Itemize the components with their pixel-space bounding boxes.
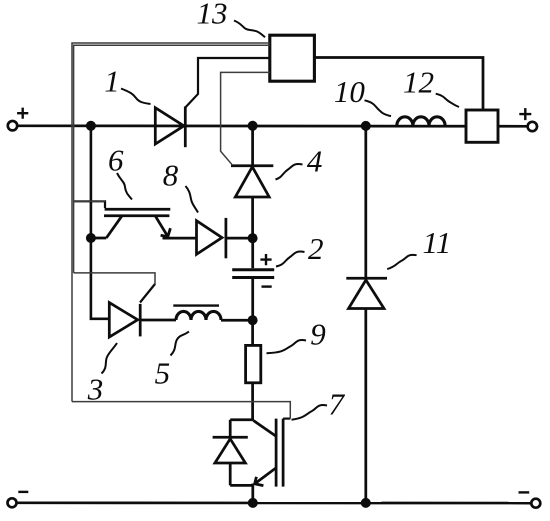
inductor 10 bbox=[397, 117, 445, 126]
block 12 bbox=[466, 110, 498, 142]
control wire to gate of thyristor 3 bbox=[74, 273, 155, 285]
control block 13 bbox=[270, 35, 315, 81]
IGBT 7 bbox=[253, 419, 290, 487]
wire node A to capacitor 2 bbox=[251, 238, 254, 268]
leader squiggle 13 bbox=[234, 21, 265, 38]
inductor 5 bbox=[173, 306, 221, 320]
terminal minus-left bbox=[8, 492, 29, 507]
leader squiggle 7 bbox=[292, 405, 328, 420]
wire thyristor 3 to inductor 5 bbox=[140, 319, 176, 322]
wire diode 11 branch vertical bottom bbox=[364, 309, 367, 503]
leader squiggle 6 bbox=[117, 173, 132, 200]
wire diode 11 branch vertical top bbox=[364, 126, 367, 278]
node bottom rail junction dot x366 bbox=[361, 498, 371, 508]
svg-text:8: 8 bbox=[163, 157, 179, 192]
leader squiggle 3 bbox=[102, 343, 118, 374]
wire diode 8 to node A bbox=[226, 237, 253, 240]
control wire from block 13 to gate of thyristor 4 bbox=[221, 72, 270, 165]
leader squiggle 8 bbox=[186, 186, 199, 213]
svg-text:6: 6 bbox=[108, 143, 124, 178]
wire diode of 7 to emitter node bbox=[230, 484, 253, 487]
node top rail junction dot x253 bbox=[248, 121, 258, 131]
node A junction dot bbox=[248, 233, 258, 243]
wire node B to resistor 9 bbox=[251, 320, 254, 345]
wire control block 13 to block 12 bbox=[314, 58, 483, 111]
wire resistor 9 to node C bbox=[251, 383, 254, 420]
IGBT 6 bbox=[74, 201, 171, 238]
svg-text:2: 2 bbox=[308, 231, 324, 266]
diode 11 bbox=[346, 278, 387, 308]
leader squiggle 9 bbox=[267, 340, 307, 353]
leader squiggle 11 bbox=[387, 255, 416, 269]
leader squiggle 5 bbox=[171, 332, 190, 356]
wire center vertical from top rail to thyristor 4 bbox=[251, 126, 254, 166]
diode 8 bbox=[197, 218, 226, 258]
wire inductor 5 to node B bbox=[221, 319, 253, 322]
wire top positive rail bbox=[17, 124, 528, 127]
svg-text:12: 12 bbox=[403, 64, 434, 99]
resistor 9 bbox=[246, 345, 261, 382]
terminal minus-right bbox=[519, 492, 541, 507]
node top rail junction dot x91 bbox=[86, 121, 96, 131]
wire capacitor 2 to node B bbox=[251, 279, 254, 320]
wire emitter of 7 down to bottom rail bbox=[251, 484, 254, 503]
svg-text:13: 13 bbox=[197, 0, 228, 30]
terminal plus-right bbox=[519, 108, 537, 131]
leader squiggle 12 bbox=[436, 94, 459, 107]
wire IGBT6 collector to left branch bbox=[91, 237, 106, 240]
node junction dot IGBT6 collector bbox=[86, 233, 96, 243]
leader squiggle 1 bbox=[121, 89, 151, 105]
node top rail junction dot x366 bbox=[361, 121, 371, 131]
svg-text:10: 10 bbox=[334, 74, 366, 109]
svg-text:9: 9 bbox=[310, 317, 326, 352]
wire left branch vertical from top rail down to thyristor 3 anode bbox=[91, 126, 109, 319]
svg-text:5: 5 bbox=[155, 356, 171, 391]
svg-text:11: 11 bbox=[423, 225, 452, 260]
capacitor 2 bbox=[232, 254, 274, 287]
wire IGBT6 emitter to diode 8 bbox=[163, 237, 197, 240]
leader squiggle 4 bbox=[276, 164, 303, 179]
svg-text:3: 3 bbox=[87, 372, 104, 407]
control wire bus from block 13 inner bbox=[74, 45, 270, 273]
wire bottom negative rail bbox=[16, 501, 531, 504]
control wire bus from block 13 outer bbox=[72, 43, 270, 402]
wire thyristor 4 to node A bbox=[251, 197, 254, 238]
node bottom rail junction dot x253 bbox=[248, 498, 258, 508]
control wire branch to gate of IGBT 6 bbox=[74, 200, 105, 202]
freewheeling diode of 7 bbox=[213, 420, 248, 486]
leader squiggle 10 bbox=[365, 100, 392, 116]
svg-text:7: 7 bbox=[329, 387, 346, 422]
wire node C horizontal to diode of 7 bbox=[230, 418, 253, 421]
control wire to gate of IGBT 7 bbox=[72, 402, 290, 419]
terminal plus-left bbox=[8, 108, 29, 131]
thyristor 3 bbox=[109, 284, 155, 337]
thyristor 4 bbox=[231, 166, 273, 197]
svg-text:1: 1 bbox=[104, 64, 120, 99]
node B junction dot bbox=[248, 315, 258, 325]
thyristor 1 bbox=[155, 58, 270, 147]
leader squiggle 2 bbox=[276, 252, 305, 267]
svg-text:4: 4 bbox=[307, 144, 323, 179]
